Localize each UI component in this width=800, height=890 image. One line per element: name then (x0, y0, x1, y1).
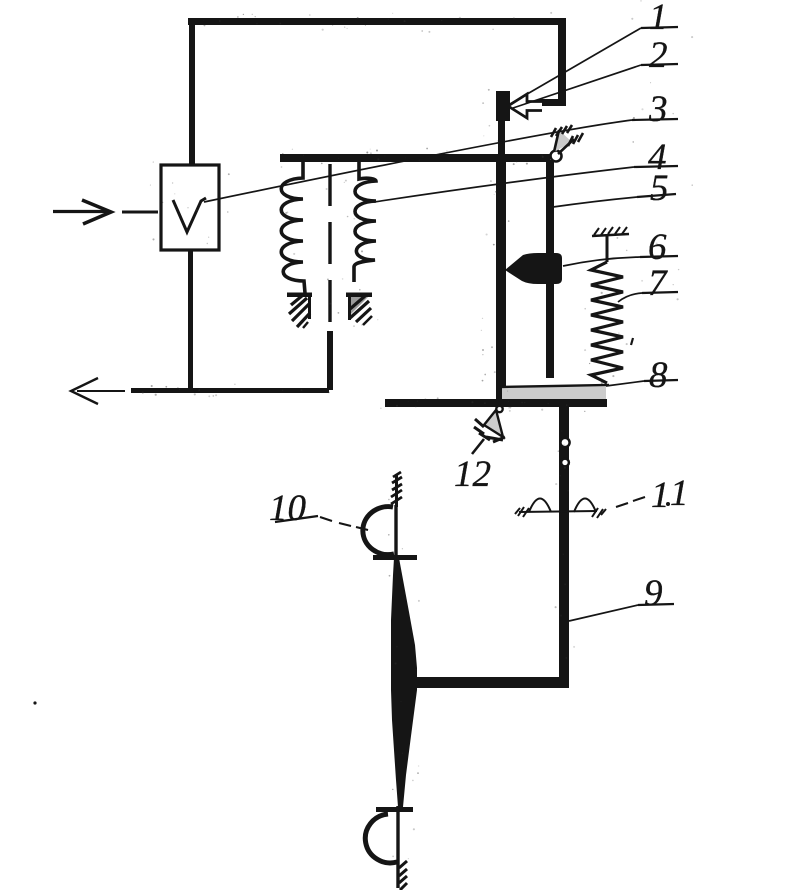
svg-text:7: 7 (648, 263, 668, 304)
svg-text:9: 9 (644, 573, 663, 614)
svg-text:1: 1 (670, 473, 689, 514)
svg-text:8: 8 (649, 355, 668, 396)
svg-text:2: 2 (649, 35, 668, 76)
svg-text:3: 3 (648, 89, 668, 130)
svg-text:10: 10 (269, 488, 307, 529)
svg-text:1: 1 (649, 0, 668, 38)
svg-text:1: 1 (651, 475, 670, 516)
svg-text:12: 12 (454, 454, 491, 495)
svg-text:5: 5 (650, 168, 669, 209)
svg-text:6: 6 (648, 227, 667, 268)
